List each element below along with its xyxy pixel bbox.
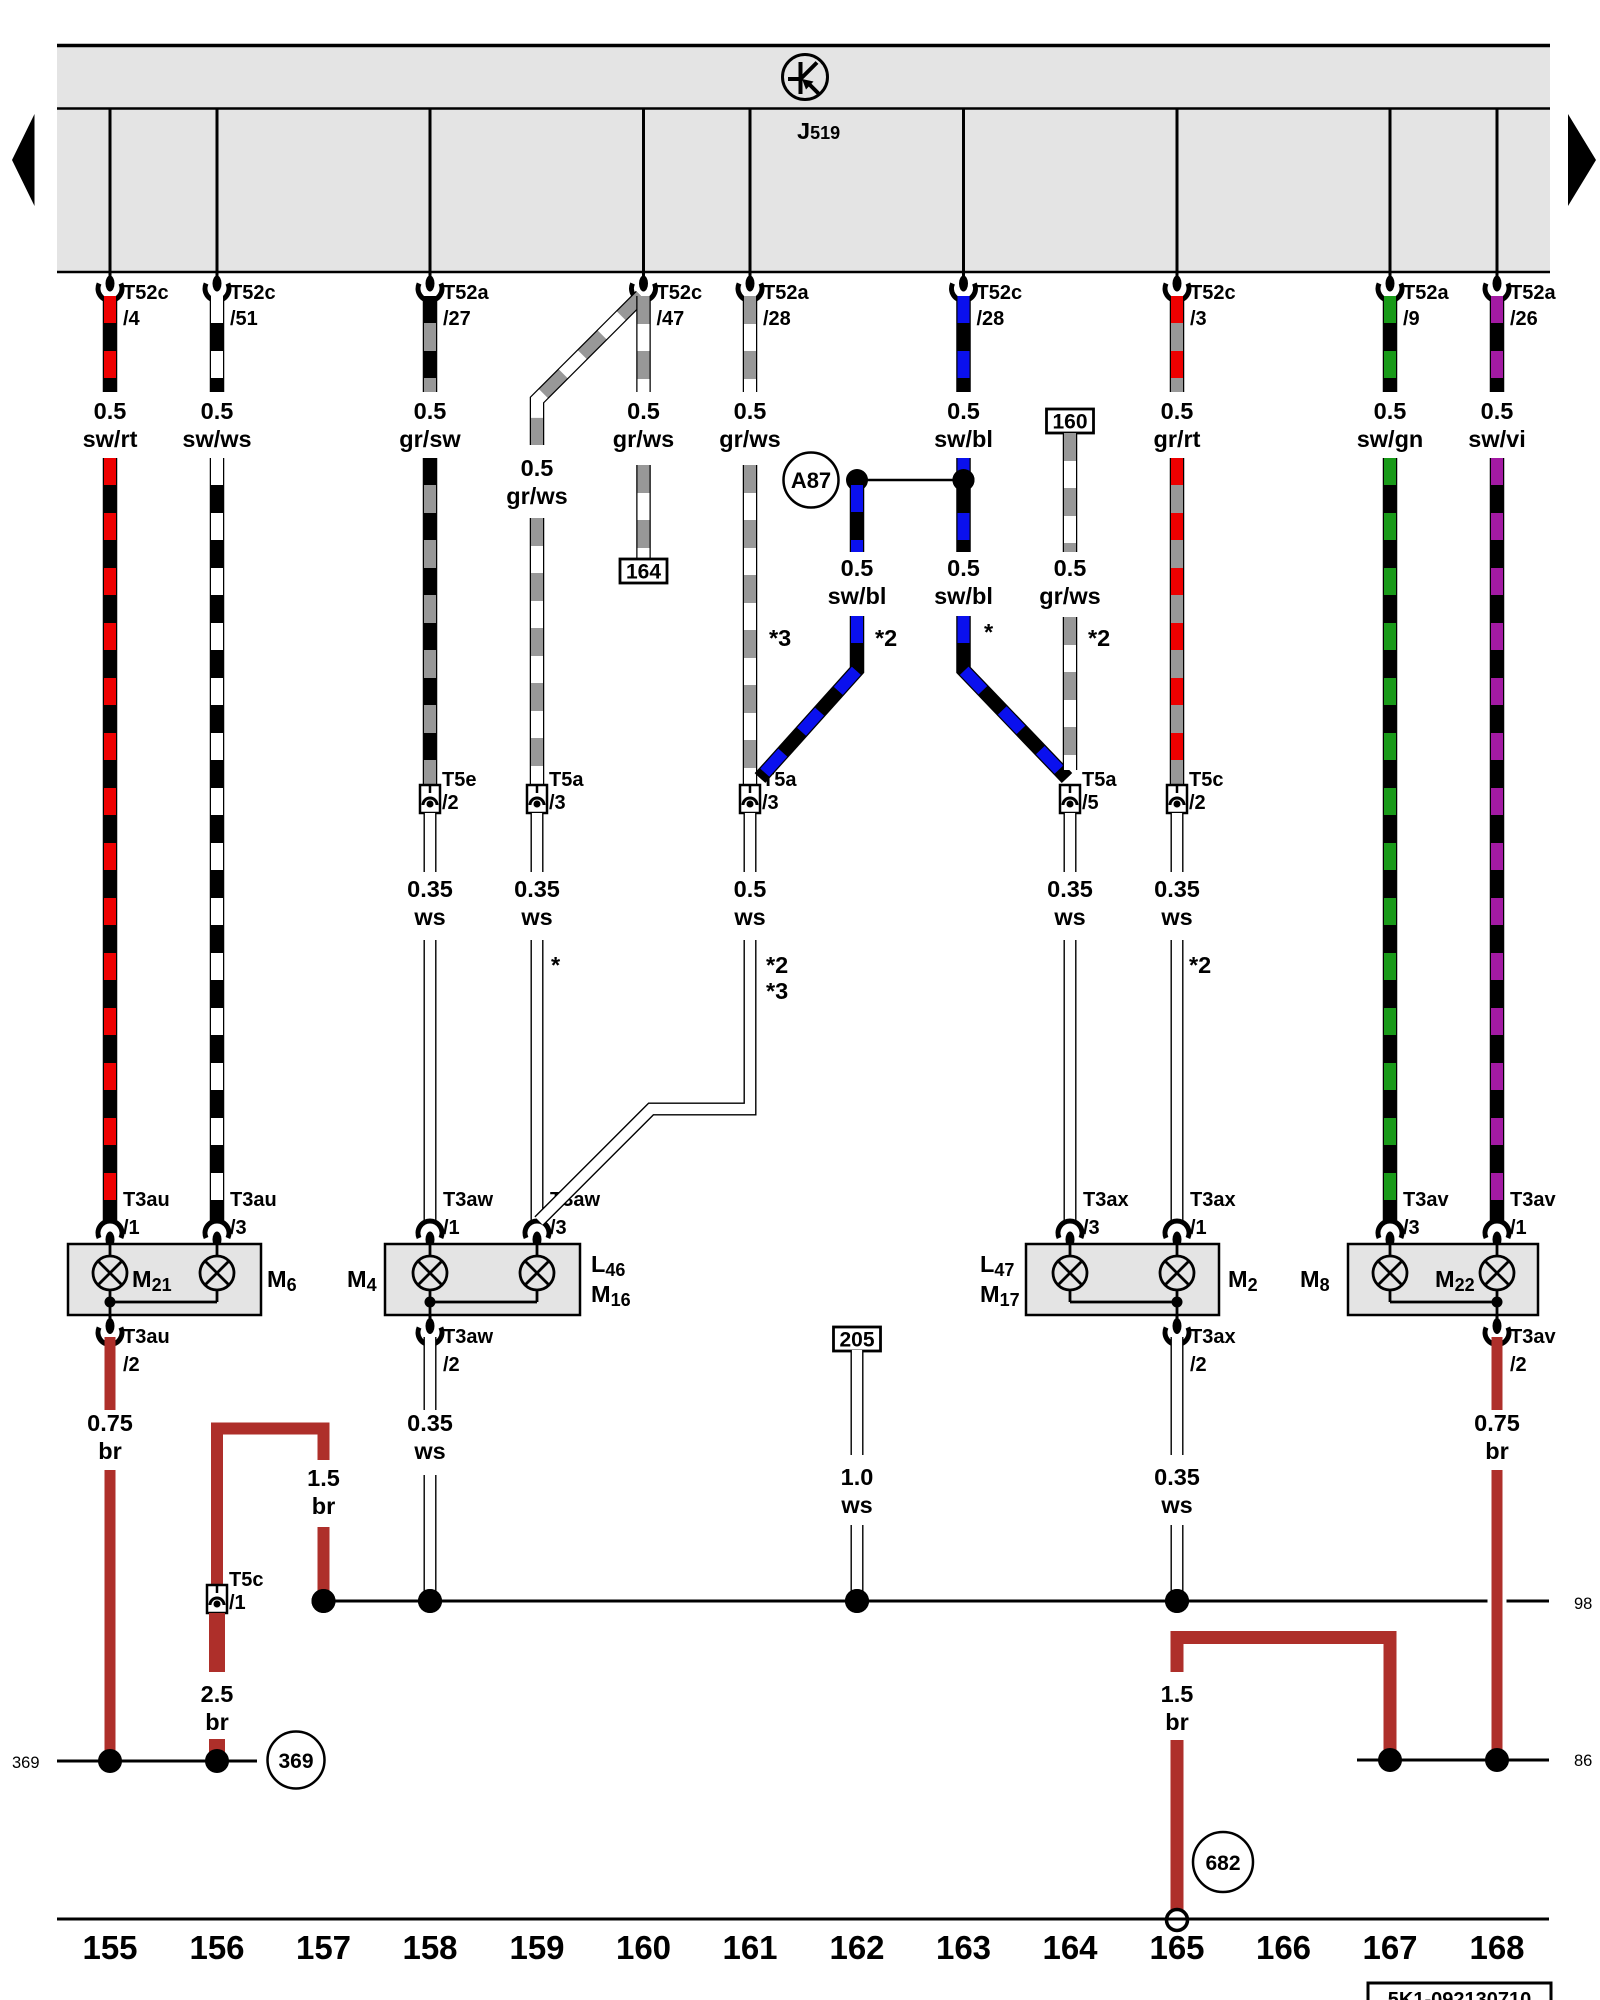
svg-text:ws: ws [413, 904, 445, 930]
wire link between bulbs [429, 1290, 432, 1303]
bulb M21 [93, 1256, 127, 1290]
svg-text:1.0: 1.0 [841, 1464, 874, 1490]
svg-text:/3: /3 [550, 1217, 567, 1239]
svg-text:/2: /2 [1189, 792, 1206, 814]
wire 0.5 gr/ws diagonal from T52c/47 [537, 296, 641, 445]
svg-text:gr/ws: gr/ws [719, 426, 780, 452]
svg-text:0.5: 0.5 [627, 398, 660, 424]
svg-text:168: 168 [1469, 1929, 1524, 1966]
svg-text:ws: ws [413, 1438, 445, 1464]
svg-text:T52a: T52a [1510, 282, 1556, 304]
svg-text:5K1-092130710: 5K1-092130710 [1388, 1989, 1531, 2000]
wire 0.75 br to ground line [105, 1470, 116, 1755]
svg-text:br: br [1485, 1438, 1509, 1464]
connector T5a/3 (track 161) [740, 785, 760, 813]
svg-text:sw/ws: sw/ws [182, 426, 251, 452]
connector T3au/2 [109, 1315, 112, 1320]
connector T3ax/2 [1176, 1315, 1179, 1320]
svg-text:br: br [205, 1709, 229, 1735]
wire inside J519 to track 161 [749, 109, 752, 273]
svg-text:*: * [551, 952, 561, 978]
wire stub to L46/M16 [536, 1244, 539, 1257]
svg-text:161: 161 [722, 1929, 777, 1966]
wire 2.5 br below T5c/1 [209, 1613, 225, 1672]
ground connection 682 circle [1193, 1832, 1253, 1892]
wire 0.35 ws to node 98 line (track 165) [1171, 1525, 1184, 1597]
svg-text:sw/gn: sw/gn [1357, 426, 1424, 452]
svg-text:*2: *2 [1088, 625, 1110, 651]
wire 0.5 gr/rt segment to T5c/2 [1170, 458, 1185, 785]
svg-text:157: 157 [296, 1929, 351, 1966]
connector T52a/28 on J519 [749, 272, 752, 277]
page-link arrow left [12, 114, 35, 206]
wire 0.35 ws below T5e/2 [424, 813, 437, 872]
svg-text:155: 155 [82, 1929, 137, 1966]
svg-text:/26: /26 [1510, 308, 1538, 330]
svg-text:682: 682 [1205, 1852, 1240, 1875]
svg-text:158: 158 [402, 1929, 457, 1966]
wire 0.35 ws below T5c/2 [1171, 813, 1184, 872]
svg-text:0.5: 0.5 [1054, 555, 1087, 581]
svg-text:160: 160 [1052, 411, 1087, 434]
svg-text:/27: /27 [443, 308, 471, 330]
junction dot in lamp unit [1492, 1297, 1503, 1308]
svg-text:0.5: 0.5 [1481, 398, 1514, 424]
svg-text:*3: *3 [766, 978, 788, 1004]
wire link between bulbs [109, 1290, 112, 1303]
svg-text:T3aw: T3aw [443, 1189, 493, 1211]
connector T3av/3 [1378, 1221, 1402, 1238]
svg-text:*3: *3 [769, 625, 791, 651]
svg-text:98: 98 [1574, 1595, 1592, 1613]
svg-text:0.35: 0.35 [514, 876, 560, 902]
svg-text:T52c: T52c [230, 282, 276, 304]
wire stub to M6 [216, 1244, 219, 1257]
svg-text:0.5: 0.5 [414, 398, 447, 424]
svg-text:T5a: T5a [1082, 769, 1117, 791]
wire 0.35 ws segment to T3ax/1 [1171, 940, 1184, 1223]
wire 0.35 ws segment to T3aw/1 [424, 940, 437, 1223]
connector T5a/5 [1060, 785, 1080, 813]
svg-text:T3au: T3au [230, 1189, 277, 1211]
svg-text:/3: /3 [762, 792, 779, 814]
wire 1.5 br n-shape to ground 86 line [1177, 1638, 1390, 1755]
svg-text:0.5: 0.5 [521, 455, 554, 481]
svg-text:T52a: T52a [763, 282, 809, 304]
connector T5c/1 [207, 1585, 227, 1613]
wire 1.5 br lower segment to node 98 line [318, 1527, 330, 1597]
svg-text:/2: /2 [443, 1354, 460, 1376]
wire 0.5 sw/rt long segment to T3au/1 [103, 458, 118, 1223]
junction dot in lamp unit [425, 1297, 436, 1308]
svg-text:0.35: 0.35 [1047, 876, 1093, 902]
svg-text:T5e: T5e [442, 769, 476, 791]
bulb M8 [1373, 1256, 1407, 1290]
svg-text:T5a: T5a [549, 769, 584, 791]
bulb M4 [413, 1256, 447, 1290]
svg-text:0.35: 0.35 [407, 1410, 453, 1436]
svg-text:166: 166 [1256, 1929, 1311, 1966]
svg-text:1.5: 1.5 [1161, 1681, 1194, 1707]
svg-text:T3ax: T3ax [1083, 1189, 1129, 1211]
wire 0.5 sw/vi long segment to T3av/1 [1490, 458, 1505, 1223]
control unit J519 (onboard supply control unit) bus box [57, 44, 1550, 273]
wire 0.35 ws below T5a/3 [531, 813, 544, 872]
junction dot ground 86 left [1378, 1748, 1402, 1772]
wire inside J519 to track 158 [429, 109, 432, 273]
wire 0.5 gr/sw segment to T5e/2 [423, 458, 438, 785]
wire stub to M4 [429, 1244, 432, 1257]
svg-text:gr/ws: gr/ws [613, 426, 674, 452]
wire 0.5 gr/ws segment to T5a/3 (track 159) [530, 518, 545, 785]
wire 0.35 ws segment to T3ax/3 [1064, 940, 1077, 1223]
connector T52c/4 on J519 [109, 272, 112, 277]
wire 0.5 gr/rt upper segment (track 165) [1170, 296, 1185, 392]
svg-text:sw/bl: sw/bl [934, 583, 993, 609]
junction dot on 98 line (track 162) [845, 1589, 869, 1613]
wire 0.5 sw/bl below left junction [850, 485, 865, 552]
svg-text:0.5: 0.5 [841, 555, 874, 581]
connector T52c/28 on J519 [962, 272, 965, 277]
svg-text:0.5: 0.5 [201, 398, 234, 424]
bus symbol (terminal K in circle) [783, 55, 828, 100]
svg-text:T52a: T52a [1403, 282, 1449, 304]
svg-text:*2: *2 [1189, 952, 1211, 978]
svg-text:T52c: T52c [123, 282, 169, 304]
connector T3aw/2 [429, 1315, 432, 1320]
connector T3ax/1 [1165, 1221, 1189, 1238]
lamp unit M4 / L46 M16 box [385, 1244, 580, 1315]
junction dot in lamp unit [105, 1297, 116, 1308]
wire 0.5 sw/bl diagonal to T5a/5 [964, 616, 1068, 778]
wire 0.35 ws below T3aw/2 [424, 1337, 437, 1410]
svg-text:0.5: 0.5 [947, 555, 980, 581]
svg-text:0.75: 0.75 [1474, 1410, 1520, 1436]
wire 0.75 br upper segment (track 168) [1492, 1337, 1503, 1410]
wire inside J519 to track 155 [109, 109, 112, 273]
svg-text:/1: /1 [1190, 1217, 1207, 1239]
wire inside J519 to track 156 [216, 109, 219, 273]
svg-text:gr/ws: gr/ws [1039, 583, 1100, 609]
wire 0.5 sw/rt upper segment (track 155) [103, 296, 118, 392]
junction dot ground 86 right [1485, 1748, 1509, 1772]
junction dot on 98 line (track 157) [312, 1589, 336, 1613]
svg-text:/3: /3 [230, 1217, 247, 1239]
bulb M6 [200, 1256, 234, 1290]
svg-text:/1: /1 [229, 1592, 246, 1614]
wire 1.0 ws below node 205 [851, 1350, 864, 1455]
svg-text:/3: /3 [1403, 1217, 1420, 1239]
wire 1.5 br to ground connection 682 [1171, 1740, 1184, 1910]
wire 0.5 sw/ws upper segment (track 156) [210, 296, 225, 392]
connector T52c/51 on J519 [216, 272, 219, 277]
wire stub to M22 [1496, 1244, 1499, 1257]
svg-text:gr/rt: gr/rt [1154, 426, 1201, 452]
svg-text:/1: /1 [443, 1217, 460, 1239]
svg-text:/3: /3 [1190, 308, 1207, 330]
wire 0.35 ws below T3ax/2 [1171, 1337, 1184, 1455]
wire inside J519 to track 165 [1176, 109, 1179, 273]
connector T3ax/3 [1058, 1221, 1082, 1238]
lamp unit L47 M17 / M2 box [1026, 1244, 1219, 1315]
wire stub to M2 [1176, 1244, 1179, 1257]
svg-text:0.75: 0.75 [87, 1410, 133, 1436]
wire 2.5 br stub to ground line [209, 1739, 225, 1757]
junction dot in lamp unit [1172, 1297, 1183, 1308]
wire 0.5 sw/bl diagonal to T5a/3 [760, 616, 857, 778]
connector T3au/3 [205, 1221, 229, 1238]
track baseline [57, 1918, 1549, 1921]
wire 0.5 gr/ws below node 160 [1063, 433, 1078, 552]
svg-text:167: 167 [1362, 1929, 1417, 1966]
svg-text:/2: /2 [442, 792, 459, 814]
svg-text:*2: *2 [766, 952, 788, 978]
svg-text:/2: /2 [1190, 1354, 1207, 1376]
svg-text:162: 162 [829, 1929, 884, 1966]
svg-text:ws: ws [1053, 904, 1085, 930]
wire link between bulbs [1389, 1290, 1392, 1303]
wire 0.35 ws to node 98 line [424, 1475, 437, 1597]
junction dot on 98 line (track 158) [418, 1589, 442, 1613]
svg-text:0.35: 0.35 [1154, 1464, 1200, 1490]
wire stub to M21 [109, 1244, 112, 1257]
svg-text:T52c: T52c [1190, 282, 1236, 304]
svg-text:163: 163 [936, 1929, 991, 1966]
svg-text:/4: /4 [123, 308, 141, 330]
svg-text:369: 369 [12, 1754, 40, 1772]
svg-text:br: br [1165, 1709, 1189, 1735]
wire 0.5 sw/ws long segment to T3au/3 [210, 458, 225, 1223]
svg-text:sw/vi: sw/vi [1468, 426, 1525, 452]
wire stub to M8 [1389, 1244, 1392, 1257]
wire 0.5 sw/gn long segment to T3av/3 [1383, 458, 1398, 1223]
svg-text:1.5: 1.5 [307, 1465, 340, 1491]
svg-text:T3av: T3av [1403, 1189, 1449, 1211]
wire inside J519 to track 160 [642, 109, 645, 273]
lamp unit M8 / M22 box (right) [1348, 1244, 1538, 1315]
svg-text:164: 164 [1042, 1929, 1098, 1966]
svg-text:/1: /1 [123, 1217, 140, 1239]
junction dot right (A87) [953, 469, 975, 491]
wire 0.5 sw/bl upper segment (track 163) [956, 296, 971, 392]
svg-text:ws: ws [733, 904, 765, 930]
svg-text:gr/sw: gr/sw [399, 426, 461, 452]
svg-text:369: 369 [278, 1750, 313, 1773]
junction dot left (A87) [846, 469, 868, 491]
wire 1.5 br n-shape from ground line via T5c/1 [217, 1429, 324, 1586]
wire 1.0 ws to node 98 line [851, 1525, 864, 1597]
svg-text:ws: ws [1160, 1492, 1192, 1518]
svg-text:/3: /3 [1083, 1217, 1100, 1239]
wire 0.5 sw/bl segment through right junction [956, 458, 971, 552]
wire inside J519 to track 163 [962, 109, 965, 273]
svg-text:T3av: T3av [1510, 1189, 1556, 1211]
wire 0.35 ws below T5a/5 [1064, 813, 1077, 872]
connector T3aw/3 [525, 1221, 549, 1238]
bulb M22 [1480, 1256, 1514, 1290]
wire 0.5 gr/sw upper segment (track 158) [423, 296, 438, 392]
connector T5c/2 [1167, 785, 1187, 813]
connector T3aw/1 [418, 1221, 442, 1238]
svg-text:0.35: 0.35 [407, 876, 453, 902]
svg-text:gr/ws: gr/ws [506, 483, 567, 509]
svg-text:0.5: 0.5 [1374, 398, 1407, 424]
svg-text:0.5: 0.5 [94, 398, 127, 424]
svg-text:T52c: T52c [977, 282, 1023, 304]
bulb L47/M17 [1053, 1256, 1087, 1290]
ground rail 369 [57, 1760, 257, 1763]
svg-text:/28: /28 [763, 308, 791, 330]
junction dot ground 369 right [205, 1749, 229, 1773]
connector T3au/1 [98, 1221, 122, 1238]
wire link between bulbs [1069, 1290, 1072, 1303]
connector T3av/1 [1485, 1221, 1509, 1238]
svg-text:A87: A87 [791, 468, 831, 493]
svg-text:0.5: 0.5 [1161, 398, 1194, 424]
connector T52a/9 on J519 [1389, 272, 1392, 277]
svg-text:165: 165 [1149, 1929, 1204, 1966]
wire 0.5 ws below T5a/3 [744, 813, 757, 872]
svg-text:br: br [312, 1493, 336, 1519]
wire 0.5 ws jog segment to T3aw/3 [539, 940, 750, 1221]
svg-text:0.5: 0.5 [734, 876, 767, 902]
svg-text:159: 159 [509, 1929, 564, 1966]
svg-text:*: * [984, 619, 994, 645]
svg-text:T3ax: T3ax [1190, 1326, 1236, 1348]
svg-text:T52c: T52c [657, 282, 703, 304]
connector T5a/3 (track 159) [527, 785, 547, 813]
ground rail 86 [1357, 1759, 1549, 1762]
svg-text:T5c: T5c [1189, 769, 1223, 791]
wire 0.75 br crossing node 98 rail [1488, 1590, 1507, 1612]
svg-text:0.35: 0.35 [1154, 876, 1200, 902]
wire 0.5 gr/ws segment to T5a/3 (track 161) [743, 465, 758, 784]
svg-text:ws: ws [520, 904, 552, 930]
svg-text:156: 156 [189, 1929, 244, 1966]
wire inside J519 to track 167 [1389, 109, 1392, 273]
svg-text:/1: /1 [1510, 1217, 1527, 1239]
bulb M2 [1160, 1256, 1194, 1290]
connector T52c/3 on J519 [1176, 272, 1179, 277]
node label A87 in circle [784, 453, 839, 508]
svg-text:T3aw: T3aw [443, 1326, 493, 1348]
wire 0.5 sw/gn upper segment (track 167) [1383, 296, 1398, 392]
wire link between junctions [857, 479, 964, 482]
svg-text:T5c: T5c [229, 1569, 263, 1591]
node 98 wire rail [324, 1600, 1550, 1603]
junction dot on 98 line (track 165) [1165, 1589, 1189, 1613]
wire 0.5 gr/ws straight segment below T52c/47 (track 160) [636, 296, 651, 392]
connector T52a/27 on J519 [429, 272, 432, 277]
wire 0.5 gr/ws segment to node 164 [636, 465, 651, 558]
svg-text:205: 205 [839, 1329, 874, 1352]
svg-text:160: 160 [616, 1929, 671, 1966]
junction dots over 98 rail [312, 1589, 336, 1613]
svg-text:0.5: 0.5 [947, 398, 980, 424]
connector T3av/2 [1496, 1315, 1499, 1320]
svg-text:T52a: T52a [443, 282, 489, 304]
wire 0.75 br upper segment (track 155) [105, 1337, 116, 1410]
page-link arrow right [1568, 114, 1596, 206]
svg-text:T3av: T3av [1510, 1326, 1556, 1348]
svg-text:/9: /9 [1403, 308, 1420, 330]
svg-text:/3: /3 [549, 792, 566, 814]
junction dot ground 369 left [98, 1749, 122, 1773]
node 164 reference box [620, 559, 667, 583]
ground terminal open circle (track 165) [1167, 1910, 1188, 1931]
svg-text:/51: /51 [230, 308, 258, 330]
svg-text:/5: /5 [1082, 792, 1099, 814]
svg-text:/2: /2 [123, 1354, 140, 1376]
svg-text:0.5: 0.5 [734, 398, 767, 424]
svg-text:*2: *2 [875, 625, 897, 651]
ground designation 369 circle [268, 1732, 325, 1789]
wire inside J519 to track 168 [1496, 109, 1499, 273]
connector T5e/2 [420, 785, 440, 813]
svg-text:sw/bl: sw/bl [934, 426, 993, 452]
svg-text:/47: /47 [657, 308, 685, 330]
lamp unit M21 / M6 box (left turn signals) [68, 1244, 261, 1315]
wire 0.35 ws segment to T3aw/3 [531, 940, 544, 1223]
wire 0.75 br to ground 86 line [1492, 1470, 1503, 1754]
svg-text:/28: /28 [977, 308, 1005, 330]
connector T52a/26 on J519 [1496, 272, 1499, 277]
svg-text:164: 164 [626, 561, 661, 584]
svg-text:T3au: T3au [123, 1326, 170, 1348]
wire 0.5 gr/ws upper segment (track 161) [743, 296, 758, 392]
connector T52c/47 on J519 [642, 272, 645, 277]
wire 0.5 gr/ws segment to T5a/5 [1063, 617, 1078, 770]
diagram code box 5K1-092130710 [1368, 1983, 1551, 2000]
node 205 reference box [834, 1327, 881, 1351]
svg-text:/2: /2 [1510, 1354, 1527, 1376]
svg-text:T3au: T3au [123, 1189, 170, 1211]
svg-text:br: br [98, 1438, 122, 1464]
svg-text:2.5: 2.5 [201, 1681, 234, 1707]
svg-text:T3ax: T3ax [1190, 1189, 1236, 1211]
svg-text:ws: ws [840, 1492, 872, 1518]
wire stub to L47/M17 [1069, 1244, 1072, 1257]
wire 0.5 sw/vi upper segment (track 168) [1490, 296, 1505, 392]
svg-text:sw/bl: sw/bl [828, 583, 887, 609]
svg-text:86: 86 [1574, 1752, 1592, 1770]
bulb L46/M16 [520, 1256, 554, 1290]
svg-text:ws: ws [1160, 904, 1192, 930]
junction dot right redraw [953, 469, 975, 491]
svg-text:sw/rt: sw/rt [83, 426, 138, 452]
node 160 reference box [1047, 409, 1094, 433]
